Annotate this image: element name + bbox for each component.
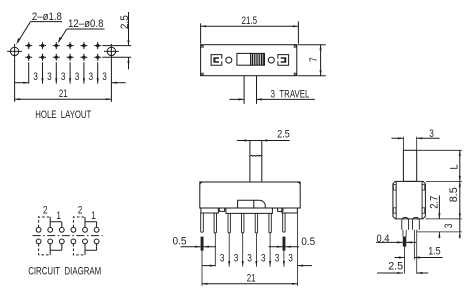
pin 3 xyxy=(242,213,244,233)
svg-text:2.5: 2.5 xyxy=(388,260,403,272)
pole 2 bottom: position 1 (solid) xyxy=(50,244,62,255)
svg-text:2–ø1.8: 2–ø1.8 xyxy=(32,11,62,23)
ext line actuator top right xyxy=(417,149,462,151)
front chain labels 3 xyxy=(220,253,293,265)
side actuator ext lines xyxy=(403,137,416,151)
front actuator xyxy=(250,141,262,183)
svg-text:2.5: 2.5 xyxy=(277,129,290,141)
svg-text:3: 3 xyxy=(247,253,252,265)
dim 0.5 right xyxy=(269,236,316,248)
front chain down arrows xyxy=(228,261,285,267)
dim 8.5 xyxy=(448,181,461,219)
slider knob (white) xyxy=(237,53,251,65)
svg-text:3: 3 xyxy=(443,224,455,229)
dim L xyxy=(448,150,461,181)
svg-text:12–ø0.8: 12–ø0.8 xyxy=(68,18,104,30)
side pin 2 ext lines xyxy=(414,230,416,274)
ext line body bottom right xyxy=(426,218,462,220)
dim 3 (side actuator) xyxy=(391,128,439,140)
dim 2.5 (side) xyxy=(377,260,428,274)
dim 3 TRAVEL xyxy=(229,76,315,104)
front body xyxy=(200,182,300,208)
slider slot (hatched) xyxy=(251,53,265,65)
svg-text:21.5: 21.5 xyxy=(242,15,258,27)
dim 2.7 xyxy=(429,196,441,239)
pin shoulder arch 2 xyxy=(413,217,420,229)
left screw circle xyxy=(226,57,232,63)
pin shoulder arch 1 xyxy=(402,217,409,229)
pin 2 xyxy=(228,213,230,233)
svg-text:2: 2 xyxy=(78,205,83,217)
svg-text:1.5: 1.5 xyxy=(428,246,441,258)
svg-text:7: 7 xyxy=(308,57,320,62)
contact pedestal base xyxy=(226,208,273,213)
svg-text:21: 21 xyxy=(247,273,256,285)
svg-text:1: 1 xyxy=(91,210,96,222)
svg-text:3: 3 xyxy=(275,253,280,265)
svg-text:L: L xyxy=(448,164,460,170)
right foot xyxy=(282,208,298,213)
svg-text:3: 3 xyxy=(234,253,239,265)
right metal bracket xyxy=(278,55,289,66)
pin 1 xyxy=(214,213,216,233)
side body xyxy=(393,181,426,219)
pedestal side tabs xyxy=(219,208,224,211)
dim 7 xyxy=(298,45,326,76)
svg-text:3 TRAVEL: 3 TRAVEL xyxy=(271,89,310,101)
svg-text:2.7: 2.7 xyxy=(429,196,441,209)
front chain leaders xyxy=(202,265,215,267)
big hole left (ø1.8) xyxy=(7,44,22,59)
left foot xyxy=(201,208,218,213)
svg-text:0.5: 0.5 xyxy=(173,235,187,247)
svg-text:3: 3 xyxy=(75,71,80,83)
ext line pin tip right xyxy=(417,231,462,233)
svg-text:0.5: 0.5 xyxy=(301,236,315,248)
pin 5 xyxy=(269,213,271,233)
corner notches xyxy=(201,45,296,75)
left mounting leg xyxy=(201,213,204,286)
pole 4 bottom: position 2 (dashed) xyxy=(73,244,85,255)
pole 1 top: position 1 (solid) xyxy=(50,217,62,227)
side body lance tabs xyxy=(393,185,424,214)
chain labels 3 xyxy=(33,71,107,83)
svg-text:2.5: 2.5 xyxy=(119,15,131,29)
dim 21 (front) xyxy=(202,273,298,285)
left metal bracket xyxy=(211,55,222,66)
circuit terminals row top xyxy=(36,227,99,232)
svg-text:21: 21 xyxy=(59,88,68,100)
chain down arrows xyxy=(41,78,98,84)
hole-layout chain extension lines xyxy=(29,62,98,83)
side body inner lines xyxy=(396,181,422,219)
svg-text:HOLE LAYOUT: HOLE LAYOUT xyxy=(35,109,91,121)
side pin 1 lines + 0.4 bar xyxy=(403,230,407,274)
dim 0.5 left xyxy=(173,235,217,248)
pin extension lines xyxy=(215,233,270,267)
label 2-ø1.8 leader xyxy=(16,11,62,45)
svg-text:0.4: 0.4 xyxy=(377,233,390,245)
hole crosses (12-ø0.8) row2 xyxy=(25,54,101,61)
pole 4 bottom: position 1 (solid) xyxy=(85,244,97,255)
dim 21 xyxy=(15,59,112,102)
svg-text:3: 3 xyxy=(33,71,38,83)
side actuator xyxy=(403,150,416,181)
svg-text:3: 3 xyxy=(61,71,66,83)
front body corner marks xyxy=(200,183,299,185)
dim 21.5 xyxy=(201,15,299,44)
pin 4 xyxy=(255,213,257,233)
circuit terminals row bottom xyxy=(36,239,99,244)
svg-text:8.5: 8.5 xyxy=(448,187,460,202)
dim 2.5 row spacing xyxy=(102,12,131,69)
svg-text:3: 3 xyxy=(429,128,434,140)
big hole right (ø1.8) xyxy=(104,44,119,59)
top view body outline xyxy=(201,45,297,76)
center line (dash-dot) xyxy=(33,235,103,237)
right foot extension xyxy=(297,213,299,286)
ext line body top right xyxy=(426,180,462,182)
pole 2 bottom: position 2 (dashed) xyxy=(39,244,51,255)
svg-text:3: 3 xyxy=(288,253,293,265)
label 12-ø0.8 leader xyxy=(58,18,105,43)
contact hump xyxy=(238,200,266,208)
dim 3 (side pins) xyxy=(443,219,461,239)
pole 3 top: position 2 (dashed) xyxy=(73,217,85,227)
pin 6 with 0.5 bar xyxy=(283,213,286,267)
right screw circle xyxy=(268,57,274,63)
pole 1 top: position 2 (dashed) xyxy=(39,217,51,227)
chain leader left xyxy=(15,82,29,84)
dim 0.4 xyxy=(376,233,416,245)
svg-text:3: 3 xyxy=(89,71,94,83)
svg-text:2: 2 xyxy=(43,205,48,217)
svg-text:CIRCUIT DIAGRAM: CIRCUIT DIAGRAM xyxy=(28,265,101,277)
dim 1.5 xyxy=(395,246,443,259)
svg-text:1: 1 xyxy=(56,210,61,222)
pole 3 top: position 1 (solid) xyxy=(85,217,97,227)
hole crosses (12-ø0.8) row1 xyxy=(25,42,101,49)
svg-text:3: 3 xyxy=(220,253,225,265)
svg-text:3: 3 xyxy=(102,71,107,83)
chain leader right xyxy=(111,82,125,84)
dim 2.5 (front actuator) xyxy=(237,129,290,142)
svg-text:3: 3 xyxy=(47,71,52,83)
svg-text:3: 3 xyxy=(261,253,266,265)
